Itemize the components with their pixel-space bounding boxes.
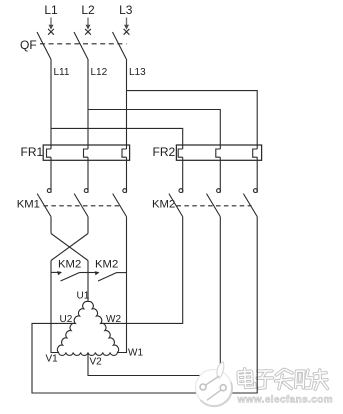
svg-text:L1: L1 xyxy=(44,3,58,17)
svg-text:www.elecfans.com: www.elecfans.com xyxy=(237,395,334,406)
breaker QF pole 3 xyxy=(113,29,130,59)
FR2 heater element pole 2 xyxy=(216,149,221,157)
wire FR2 pole2 to KM2 contact xyxy=(219,157,221,193)
thermal relay FR2 box xyxy=(176,145,261,160)
svg-text:KM2: KM2 xyxy=(95,259,118,271)
FR1 heater element pole 1 xyxy=(47,149,52,157)
svg-text:KM2: KM2 xyxy=(58,259,81,271)
watermark logo hook xyxy=(217,362,224,378)
contactor KM1 main contact 3 xyxy=(113,189,127,217)
contactor KM2 delta contact a xyxy=(51,271,88,281)
svg-text:V2: V2 xyxy=(90,357,103,368)
thermal relay FR1 box xyxy=(43,145,129,160)
contactor KM1 main contact 1 xyxy=(37,189,51,217)
wire crossover: phase1 down xyxy=(50,217,52,234)
contactor KM2 delta contact b xyxy=(88,271,127,281)
svg-text:FR2: FR2 xyxy=(153,145,176,159)
svg-text:U1: U1 xyxy=(77,291,90,302)
wire FR2 pole1 to KM2 contact xyxy=(182,157,184,193)
wire L1 incoming with arrowhead xyxy=(50,18,52,28)
FR2 heater element pole 3 xyxy=(253,149,258,157)
contactor KM2 linkage dashed line xyxy=(177,205,252,207)
wire FR1 pole2 to KM1 contact xyxy=(87,157,89,193)
motor delta winding (coil triangle) xyxy=(57,301,118,355)
svg-text:L11: L11 xyxy=(54,67,70,78)
wire FR2 pole3 to KM2 contact xyxy=(256,157,258,193)
contactor KM2 main contact 1 xyxy=(169,189,183,217)
FR1 heater element pole 2 xyxy=(84,149,89,157)
breaker QF pole 2 xyxy=(74,29,91,59)
contactor KM2 main contact 3 xyxy=(243,189,257,217)
wire tap L3 to FR2 pole 3 xyxy=(127,91,258,149)
wire crossover: phase2 down xyxy=(87,217,89,234)
breaker QF pole 1 (cross contact + blade) xyxy=(37,29,54,59)
wire L13 vertical xyxy=(126,59,128,149)
svg-text:KM1: KM1 xyxy=(17,199,40,211)
wire FR1 pole3 to KM1 contact xyxy=(126,157,128,193)
wire phase U down to motor U1 xyxy=(87,261,89,302)
contactor KM2 main contact 2 xyxy=(207,189,221,217)
wire phase W down to motor W1 xyxy=(118,217,127,353)
watermark logo terminals xyxy=(205,376,219,385)
breaker QF linkage dashed line xyxy=(40,43,127,45)
svg-text:L2: L2 xyxy=(81,3,95,17)
svg-text:L12: L12 xyxy=(91,67,108,78)
wire KM2 pole1 down and left to W2 xyxy=(101,217,183,324)
contactor KM1 linkage dashed line xyxy=(44,205,121,207)
wire crossover diagonal 1-to-2 xyxy=(51,234,88,261)
svg-text:V1: V1 xyxy=(46,354,59,365)
wire L3 incoming with arrowhead xyxy=(126,18,128,28)
FR2 heater element pole 1 xyxy=(178,149,183,157)
wire phase V down to motor V1 xyxy=(51,261,59,353)
wire L2 incoming with arrowhead xyxy=(87,18,89,28)
svg-text:FR1: FR1 xyxy=(21,145,44,159)
svg-text:L3: L3 xyxy=(119,3,133,17)
wire tap L2 to FR2 pole 2 xyxy=(88,110,220,150)
wire KM2 pole3 down, bottom run, up to U2 xyxy=(32,217,257,393)
contactor KM1 main contact 2 xyxy=(74,189,88,217)
watermark text 电子发烧友 (approximated strokes) xyxy=(238,368,328,389)
wire L11 vertical xyxy=(50,59,52,149)
wire FR1 pole1 to KM1 contact xyxy=(50,157,52,193)
svg-text:QF: QF xyxy=(20,38,37,52)
wire crossover diagonal 2-to-1 xyxy=(51,234,88,261)
svg-text:W1: W1 xyxy=(128,348,143,359)
wire tap L1 to FR2 pole 1 xyxy=(51,128,183,149)
svg-text:L13: L13 xyxy=(129,67,146,78)
wire L12 vertical xyxy=(87,59,89,149)
watermark logo circle xyxy=(196,362,233,406)
svg-text:KM2: KM2 xyxy=(152,199,175,211)
wire KM2 pole2 down and left to V2 xyxy=(88,217,220,376)
FR1 heater element pole 3 xyxy=(122,149,127,157)
